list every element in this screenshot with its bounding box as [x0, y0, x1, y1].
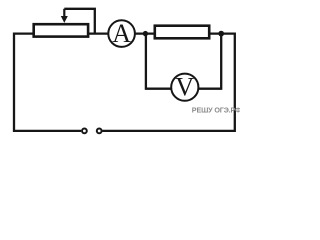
- wire voltmeter branch right: [198, 34, 221, 89]
- svg-text:V: V: [175, 72, 194, 101]
- wire wiper top run and down to main wire: [64, 9, 95, 34]
- junction node left: [143, 31, 148, 36]
- svg-text:A: A: [112, 19, 131, 48]
- rheostat R1 body: [34, 24, 88, 36]
- terminal left (open circle): [82, 129, 87, 134]
- wire left side: rheostat left lead, left vertical, bottom-left run: [14, 34, 81, 131]
- ammeter A body: [108, 20, 135, 47]
- voltmeter V body: [171, 74, 198, 101]
- svg-text:РЕШУ ОГЭ.РФ: РЕШУ ОГЭ.РФ: [192, 105, 240, 114]
- wire voltmeter branch left: [146, 34, 172, 89]
- wire rheostat to ammeter: [88, 32, 109, 34]
- resistor R2 body: [155, 26, 209, 39]
- wire ammeter to resistor: [135, 32, 155, 34]
- junction node right: [218, 31, 224, 37]
- wire resistor to right corner, right vertical, bottom-right run: [102, 34, 234, 131]
- terminal right (open circle): [97, 129, 102, 134]
- rheostat wiper arrow: [63, 9, 65, 17]
